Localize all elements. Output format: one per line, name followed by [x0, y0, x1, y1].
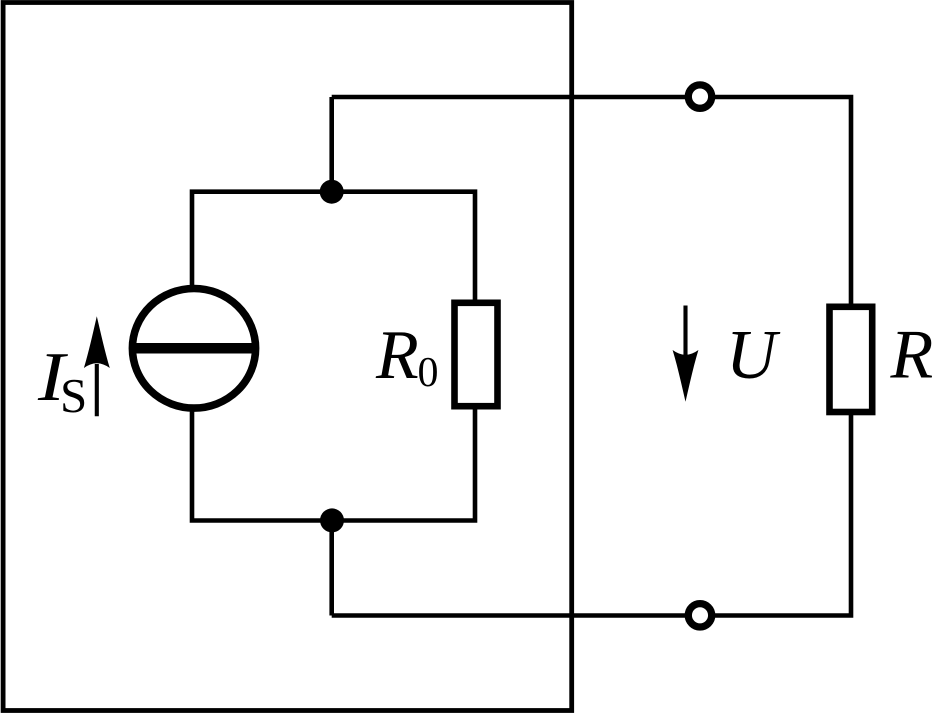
source box outline	[3, 3, 572, 711]
resistor R0	[455, 303, 498, 406]
terminal: bottom open circle	[688, 604, 711, 627]
wire: bottom inner node (circle bottom to R0 bottom)	[192, 408, 475, 521]
resistor R	[830, 307, 873, 412]
svg-text:S: S	[60, 368, 87, 423]
current source bar	[131, 343, 257, 354]
svg-text:R: R	[375, 317, 419, 394]
svg-text:U: U	[726, 317, 781, 394]
terminal: top open circle	[688, 85, 711, 108]
wire: node A up to top rail	[329, 97, 334, 192]
svg-text:0: 0	[418, 350, 439, 396]
node A junction dot	[320, 180, 344, 204]
arrow: U direction (down)	[673, 306, 699, 402]
arrow: IS direction (up)	[84, 316, 110, 416]
node B junction dot	[320, 508, 344, 532]
svg-text:R: R	[890, 316, 932, 393]
current source IS circle	[132, 289, 255, 409]
wire: node B down to bottom rail	[329, 521, 334, 616]
wire: bottom rail to resistor R	[332, 413, 851, 616]
wire: top inner node (circle top to R0 top)	[192, 192, 475, 301]
wire: top rail to resistor R	[332, 97, 851, 305]
